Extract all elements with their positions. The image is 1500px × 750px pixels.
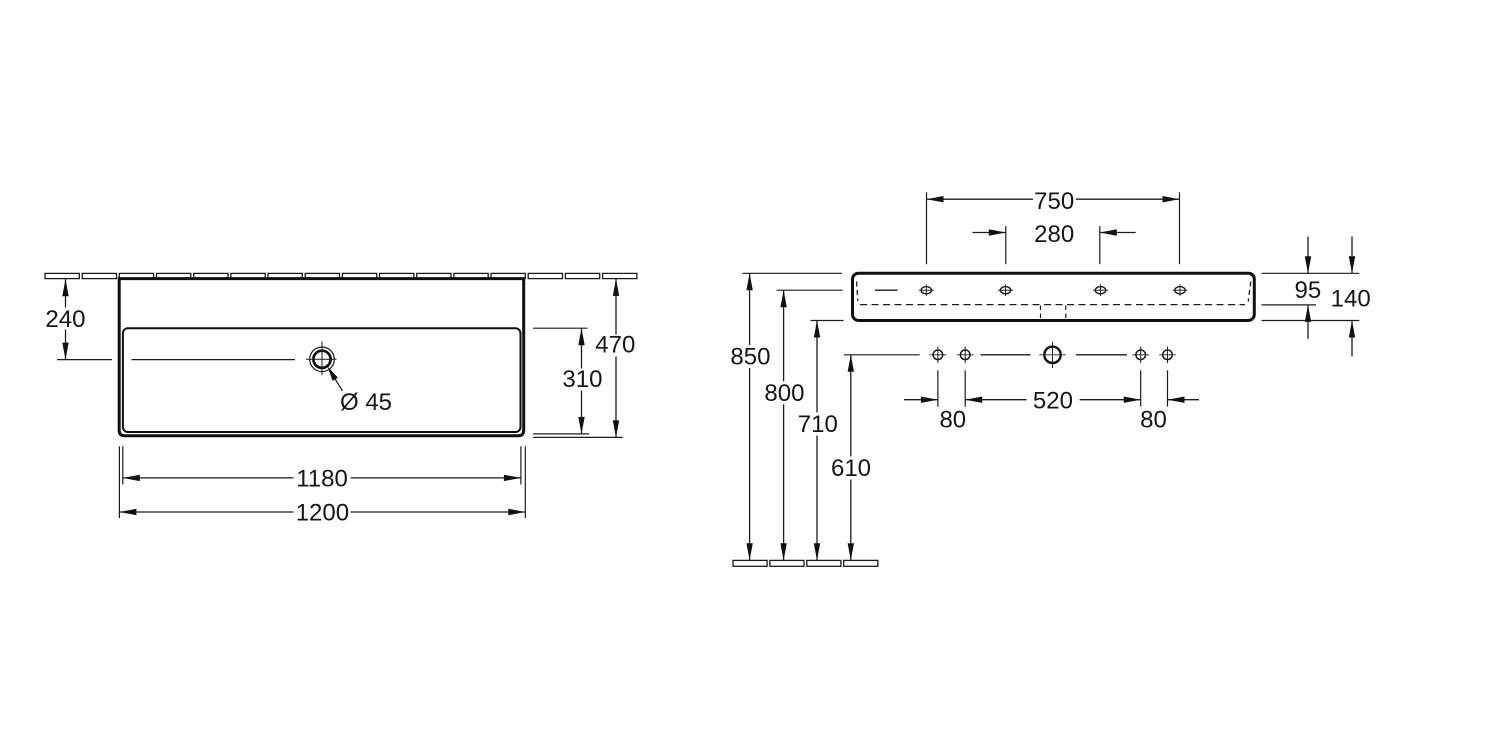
svg-text:80: 80 (939, 407, 966, 434)
svg-text:850: 850 (730, 344, 770, 371)
svg-text:Ø 45: Ø 45 (340, 389, 392, 416)
svg-text:520: 520 (1033, 387, 1073, 414)
svg-text:95: 95 (1295, 277, 1322, 304)
svg-text:610: 610 (831, 455, 871, 482)
svg-text:140: 140 (1331, 285, 1371, 312)
svg-text:310: 310 (562, 366, 602, 393)
svg-text:280: 280 (1034, 221, 1074, 248)
svg-text:750: 750 (1034, 188, 1074, 215)
svg-text:710: 710 (798, 411, 838, 438)
svg-text:240: 240 (45, 306, 85, 333)
svg-text:1200: 1200 (296, 500, 349, 527)
svg-text:1180: 1180 (296, 466, 348, 493)
svg-text:80: 80 (1140, 407, 1167, 434)
svg-text:800: 800 (764, 380, 804, 407)
svg-text:470: 470 (595, 332, 635, 359)
